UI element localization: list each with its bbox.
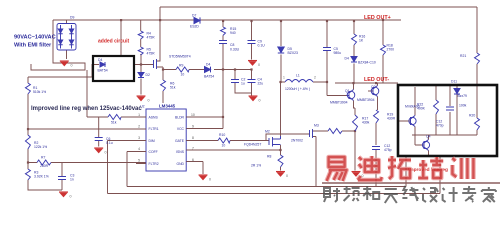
svg-text:3.92K 1%: 3.92K 1% xyxy=(34,175,49,179)
svg-text:2: 2 xyxy=(138,124,140,128)
svg-text:MMBT3904: MMBT3904 xyxy=(330,101,348,105)
svg-text:R21: R21 xyxy=(460,54,466,58)
svg-text:0.1u: 0.1u xyxy=(106,141,113,145)
svg-text:Bzx79: Bzx79 xyxy=(458,94,468,98)
svg-text:added circuit: added circuit xyxy=(98,39,129,45)
svg-text:430k: 430k xyxy=(362,121,370,125)
svg-text:ISNS: ISNS xyxy=(176,150,185,154)
svg-text:M2: M2 xyxy=(265,130,270,134)
svg-text:475R: 475R xyxy=(147,36,156,40)
svg-text:LED OUT+: LED OUT+ xyxy=(364,15,391,21)
svg-text:2N7002: 2N7002 xyxy=(291,139,303,143)
svg-text:D9: D9 xyxy=(70,16,74,20)
svg-text:VCC: VCC xyxy=(177,127,185,131)
svg-text:100k: 100k xyxy=(459,104,467,108)
svg-text:R8: R8 xyxy=(267,155,271,159)
svg-text:9: 9 xyxy=(192,124,194,128)
svg-text:DIM: DIM xyxy=(149,139,155,143)
svg-text:0.33U: 0.33U xyxy=(230,47,240,51)
svg-text:BZX23: BZX23 xyxy=(288,51,298,55)
svg-text:10: 10 xyxy=(222,144,226,148)
svg-text:D4: D4 xyxy=(206,63,210,67)
svg-text:0: 0 xyxy=(148,99,150,103)
svg-text:510k 1%: 510k 1% xyxy=(33,90,46,94)
svg-text:7: 7 xyxy=(192,146,194,150)
svg-text:10: 10 xyxy=(181,73,185,77)
svg-text:R9: R9 xyxy=(179,64,183,68)
svg-text:FLTR1: FLTR1 xyxy=(149,127,159,131)
svg-text:2R 1%: 2R 1% xyxy=(251,164,261,168)
svg-text:COFF: COFF xyxy=(149,150,158,154)
svg-text:R10: R10 xyxy=(219,133,225,137)
svg-text:Improved line reg when 125vac-: Improved line reg when 125vac-140vac xyxy=(31,106,142,112)
svg-text:0: 0 xyxy=(259,99,261,103)
svg-text:LED OUT-: LED OUT- xyxy=(364,77,389,83)
svg-text:GATE: GATE xyxy=(175,139,185,143)
svg-text:4: 4 xyxy=(138,147,140,151)
svg-text:1200uH ( +-6% ): 1200uH ( +-6% ) xyxy=(285,87,310,91)
svg-text:With EMI filter: With EMI filter xyxy=(14,43,52,49)
svg-text:GND: GND xyxy=(176,162,184,166)
svg-text:51k: 51k xyxy=(111,121,117,125)
svg-text:MMBT3904: MMBT3904 xyxy=(357,98,375,102)
svg-text:FLTR2: FLTR2 xyxy=(149,162,159,166)
svg-text:280R: 280R xyxy=(40,164,49,168)
svg-text:0: 0 xyxy=(105,151,107,155)
svg-text:D2: D2 xyxy=(146,73,150,77)
svg-text:10: 10 xyxy=(191,113,195,117)
svg-text:980u: 980u xyxy=(334,51,342,55)
svg-text:1: 1 xyxy=(283,76,285,80)
svg-text:51k: 51k xyxy=(170,86,176,90)
svg-text:Q2: Q2 xyxy=(371,85,376,89)
svg-text:0: 0 xyxy=(70,195,72,199)
svg-text:D4: D4 xyxy=(345,57,349,61)
svg-text:1n: 1n xyxy=(70,178,74,182)
svg-text:BLDR: BLDR xyxy=(175,115,185,119)
svg-text:470p: 470p xyxy=(436,124,444,128)
svg-text:1K: 1K xyxy=(359,39,364,43)
svg-text:0.1U: 0.1U xyxy=(258,44,266,48)
svg-text:22u: 22u xyxy=(258,82,264,86)
svg-text:0: 0 xyxy=(209,178,211,182)
svg-text:940: 940 xyxy=(230,31,236,35)
svg-text:R20: R20 xyxy=(469,114,475,118)
svg-text:8: 8 xyxy=(192,136,194,140)
svg-text:Q4: Q4 xyxy=(426,135,431,139)
svg-text:Q1: Q1 xyxy=(345,89,350,93)
svg-text:122k 1%: 122k 1% xyxy=(34,145,47,149)
svg-text:475R: 475R xyxy=(147,52,156,56)
svg-text:0: 0 xyxy=(71,64,73,68)
svg-text:M3: M3 xyxy=(314,124,319,128)
svg-text:D4: D4 xyxy=(98,58,102,62)
svg-text:1: 1 xyxy=(138,113,140,117)
svg-text:STD5NM50T4: STD5NM50T4 xyxy=(169,55,191,59)
svg-text:L1: L1 xyxy=(296,74,300,78)
svg-text:90VAC~140VAC: 90VAC~140VAC xyxy=(14,35,56,41)
svg-text:2: 2 xyxy=(314,76,316,80)
svg-text:0: 0 xyxy=(258,63,260,67)
svg-text:R7: R7 xyxy=(41,156,45,160)
svg-text:0: 0 xyxy=(286,174,288,178)
svg-text:ES2D: ES2D xyxy=(190,25,199,29)
svg-text:D11: D11 xyxy=(451,80,457,84)
svg-text:2700: 2700 xyxy=(387,48,395,52)
svg-text:BAT54: BAT54 xyxy=(98,69,108,73)
svg-text:FQD4N25T: FQD4N25T xyxy=(244,143,261,147)
svg-text:BZX84-C10: BZX84-C10 xyxy=(358,61,376,65)
svg-text:3: 3 xyxy=(138,136,140,140)
svg-text:5: 5 xyxy=(138,158,140,162)
svg-text:BAT54: BAT54 xyxy=(204,75,214,79)
svg-text:6: 6 xyxy=(192,158,194,162)
svg-text:475p: 475p xyxy=(384,148,392,152)
svg-text:MmbtA06: MmbtA06 xyxy=(405,105,420,109)
svg-text:ASNS: ASNS xyxy=(149,115,159,119)
svg-text:430R: 430R xyxy=(387,117,396,121)
svg-text:D7: D7 xyxy=(192,14,196,18)
svg-text:LM3445: LM3445 xyxy=(159,104,176,109)
svg-text:1u: 1u xyxy=(241,82,245,86)
